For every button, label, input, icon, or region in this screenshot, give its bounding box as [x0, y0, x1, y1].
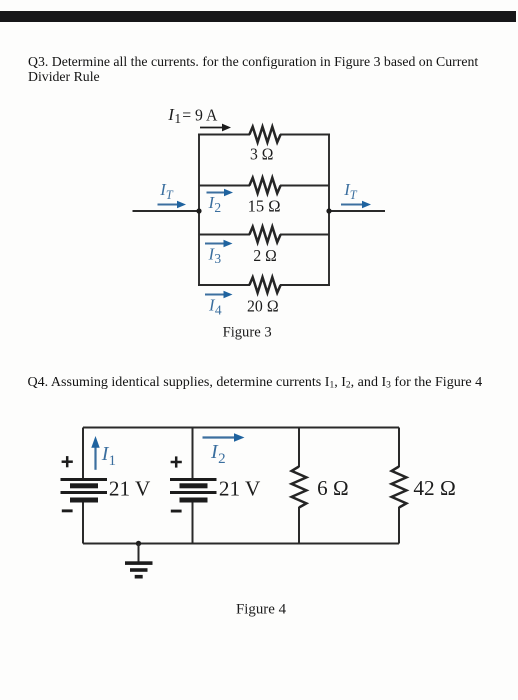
- svg-text:1: 1: [174, 111, 181, 126]
- svg-text:20 Ω: 20 Ω: [247, 296, 279, 315]
- Q3 problem text: [28, 54, 496, 85]
- label 21 V battery2: [219, 477, 261, 501]
- label I2 fig4 (blue): [210, 441, 226, 467]
- label 15 ohm: [248, 197, 281, 216]
- wire: battery2 bottom lead: [192, 503, 194, 544]
- wire: top branch right lead: [280, 134, 330, 136]
- svg-text:2 Ω: 2 Ω: [253, 246, 276, 265]
- wire: top branch left lead: [198, 134, 250, 136]
- wire: battery1 bottom lead: [82, 503, 84, 544]
- wire: 42 ohm top lead: [398, 428, 400, 468]
- wire: figure3 left rail: [198, 135, 200, 286]
- resistor 6 ohm: [292, 467, 307, 508]
- arrow I2 fig4 (blue, right): [203, 433, 245, 441]
- label I2: [208, 193, 222, 215]
- arrow IT left (blue, right): [158, 201, 187, 208]
- svg-text:IT: IT: [159, 180, 174, 202]
- arrow for I1 (black, right): [200, 124, 231, 132]
- label - for battery1: [62, 509, 73, 512]
- svg-text:I3: I3: [208, 244, 222, 266]
- label + for battery2: [171, 456, 182, 467]
- wire: figure3 right rail: [328, 135, 330, 286]
- label 42 ohm: [413, 476, 456, 500]
- resistor 2 ohm: [249, 227, 280, 243]
- resistor 3 ohm: [249, 127, 280, 143]
- svg-text:IT: IT: [343, 180, 358, 202]
- wire: branch3 right lead: [280, 234, 329, 236]
- node: ground junction dot: [136, 541, 141, 546]
- svg-text:= 9 A: = 9 A: [182, 105, 218, 124]
- svg-text:42 Ω: 42 Ω: [413, 476, 456, 500]
- node: input junction dot: [196, 208, 201, 213]
- wire: 6 ohm top lead: [298, 428, 300, 468]
- wire: output wire (right): [329, 210, 385, 212]
- caption Figure 3: [223, 324, 272, 340]
- resistor 20 ohm: [249, 277, 280, 293]
- Q4 problem text: [28, 375, 516, 394]
- arrow I1 (blue, up): [91, 436, 99, 470]
- wire: branch2 right lead: [280, 185, 329, 187]
- svg-text:21 V: 21 V: [109, 477, 151, 501]
- label - for battery2: [171, 510, 182, 513]
- ground: [125, 544, 153, 579]
- arrow I2 (blue, right): [207, 189, 234, 196]
- wire: branch3 left lead: [199, 234, 250, 236]
- label 6 ohm: [317, 476, 348, 500]
- battery E1 21V: [61, 478, 108, 503]
- arrow I4 (blue, right): [205, 291, 233, 298]
- svg-text:21 V: 21 V: [219, 477, 261, 501]
- label 20 ohm: [247, 296, 279, 315]
- top black bar: [0, 11, 516, 22]
- battery E2 21V: [170, 478, 217, 503]
- svg-text:3 Ω: 3 Ω: [250, 145, 273, 164]
- svg-text:Figure 3: Figure 3: [223, 324, 272, 340]
- arrow I3 (blue, right): [205, 240, 233, 247]
- wire: branch4 left lead: [198, 284, 250, 286]
- resistor 15 ohm: [249, 178, 280, 194]
- label I1 (blue): [101, 443, 116, 469]
- wire: battery2 top lead: [192, 428, 194, 480]
- wire: input wire (left): [133, 210, 200, 212]
- wire: battery1 top lead: [82, 428, 84, 480]
- resistor 42 ohm: [392, 467, 407, 508]
- svg-text:Figure 4: Figure 4: [236, 602, 287, 618]
- label I4: [208, 296, 222, 318]
- label 3 ohm: [250, 145, 273, 164]
- wire: 6 ohm bottom lead: [298, 507, 300, 544]
- label 21 V battery1: [109, 477, 151, 501]
- arrow IT right (blue, right): [341, 201, 371, 208]
- label 2 ohm: [253, 246, 276, 265]
- wire: figure4 bottom wire: [83, 543, 399, 545]
- label I3: [208, 244, 222, 266]
- label IT right: [343, 180, 358, 202]
- wire: branch2 left lead: [199, 185, 250, 187]
- wire: branch4 right lead: [280, 284, 330, 286]
- label I1 = 9 A: [167, 105, 218, 126]
- svg-text:I4: I4: [208, 296, 222, 318]
- wire: figure4 top wire: [83, 427, 399, 429]
- svg-text:I1: I1: [101, 443, 116, 469]
- caption Figure 4: [236, 602, 287, 618]
- label + for battery1: [62, 456, 73, 467]
- svg-text:6 Ω: 6 Ω: [317, 476, 348, 500]
- label IT left: [159, 180, 174, 202]
- svg-text:I2: I2: [208, 193, 222, 215]
- wire: 42 ohm bottom lead: [398, 507, 400, 544]
- node: output junction dot: [326, 208, 331, 213]
- svg-text:15 Ω: 15 Ω: [248, 197, 281, 216]
- svg-text:I2: I2: [210, 441, 226, 467]
